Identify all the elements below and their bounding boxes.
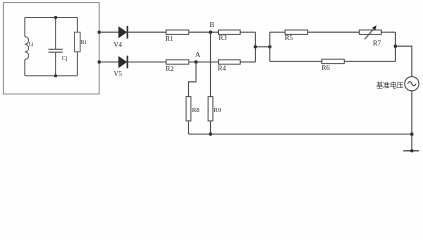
svg-text:R9: R9 [214, 107, 222, 114]
ground bar [403, 150, 419, 152]
capacitor Cj plates [48, 49, 62, 52]
resistor R5 [285, 30, 308, 34]
wire node B down through A-rail to R9 [210, 32, 212, 96]
svg-text:V5: V5 [114, 71, 123, 78]
wire R8 to bottom rail [188, 121, 190, 134]
wire R7 to right corner [381, 31, 395, 33]
node dot bottom rail right [410, 132, 413, 135]
svg-text:B: B [210, 21, 215, 29]
node dot capacitor bottom [54, 74, 57, 77]
svg-text:R2: R2 [166, 65, 175, 73]
inductor Lj [25, 37, 29, 60]
node A dot [194, 60, 197, 63]
node B dot [209, 31, 212, 34]
svg-text:R8: R8 [192, 107, 200, 114]
wire box to V4 anode [99, 31, 118, 33]
wire R6 to right vertical [344, 60, 395, 62]
resistor R4 [219, 60, 241, 64]
svg-text:A: A [195, 50, 201, 59]
node dot on bar1 [254, 45, 257, 48]
wire AC source to bottom rail [411, 91, 413, 151]
node dot on box edge top [98, 31, 101, 34]
right vertical joining R5 branch and R6 branch [394, 32, 396, 61]
inner loop top wire [25, 17, 78, 19]
resistor R9 [208, 97, 213, 121]
svg-text:Cj: Cj [62, 56, 68, 62]
node dot on bar2 [268, 45, 271, 48]
wire bar2 to R6 [270, 60, 322, 62]
wire bar2 to R5 [270, 31, 285, 33]
capacitor Cj leads [55, 18, 57, 76]
wire to AC source [395, 46, 411, 76]
node dot capacitor top [54, 16, 57, 19]
svg-text:R6: R6 [322, 64, 331, 72]
resistor Ri leads [76, 18, 78, 76]
vertical bar joining R3 and R4 [254, 32, 256, 62]
svg-text:基准电压: 基准电压 [376, 80, 404, 89]
node dot right vertical [394, 45, 397, 48]
svg-text:R5: R5 [285, 34, 294, 42]
resistor R8 [186, 97, 191, 121]
svg-text:R7: R7 [373, 39, 382, 47]
node dot on box edge bottom [98, 60, 101, 63]
wire R1 to R3 [189, 31, 219, 33]
rheostat R7 box [359, 30, 381, 34]
wire V5 to R2 [127, 61, 166, 63]
resistor Ri [75, 32, 81, 52]
wire R2 to R4 [189, 61, 219, 63]
diode V5 [119, 56, 128, 69]
wire R5 to R7 [308, 31, 360, 33]
inner loop bottom wire [25, 75, 78, 77]
resistor R6 [322, 59, 345, 63]
svg-text:Lj: Lj [29, 41, 34, 47]
rheostat R7 arrow [365, 28, 375, 40]
outer box (crystal unit enclosure) [3, 3, 99, 94]
svg-text:R4: R4 [218, 65, 227, 73]
wire R3 to bar1 [240, 31, 255, 33]
link wire bar1 to bar2 [255, 46, 269, 48]
diode V4 [119, 26, 128, 39]
svg-text:R3: R3 [219, 34, 228, 42]
wire V5 anode [99, 61, 118, 63]
resistor R3 [219, 30, 241, 34]
wire node A down-jog to R8 [189, 62, 197, 97]
inner loop left wire (inductor leads) [24, 18, 26, 76]
svg-text:V4: V4 [114, 42, 123, 49]
bottom rail [189, 133, 412, 135]
AC source circle [405, 77, 419, 91]
ground dot [410, 149, 413, 152]
vertical bar splitting to R5/R6 branches [269, 32, 271, 61]
wire R9 to bottom rail [210, 121, 212, 134]
node dot R9 bottom [209, 132, 212, 135]
wire V4 to R1 [127, 31, 166, 33]
svg-text:Ri: Ri [81, 40, 87, 46]
AC source sine [408, 82, 416, 86]
resistor R2 [166, 60, 189, 64]
svg-text:R1: R1 [165, 35, 174, 43]
resistor R1 [166, 30, 189, 34]
wire R4 to bar1 [240, 61, 255, 63]
